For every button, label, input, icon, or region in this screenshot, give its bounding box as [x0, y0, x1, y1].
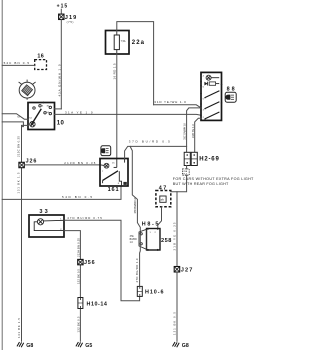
svg-text:10: 10 — [57, 120, 65, 126]
ground G5 — [76, 342, 92, 349]
svg-text:H10-6: H10-6 — [145, 289, 164, 295]
wire 258 down to H10-6 — [135, 235, 140, 287]
wire 54D BN 0.5 from 161 bottom — [2, 186, 121, 199]
wire left border feed — [2, 122, 23, 127]
wire feed into switch 10 left — [2, 114, 28, 120]
wire J19 into switch 10 — [55, 108, 62, 110]
wire 31B YE 1.0 from 88 to H2-69 — [191, 118, 201, 152]
rear fog light 258 — [147, 228, 172, 251]
wire H2-69 to relay 47 — [171, 175, 187, 192]
splice J27 — [174, 267, 192, 274]
svg-text:213A BN 0.35: 213A BN 0.35 — [76, 238, 80, 257]
svg-text:J19: J19 — [65, 15, 76, 21]
svg-text:16 RD 1.5: 16 RD 1.5 — [113, 63, 117, 79]
svg-text:258: 258 — [161, 238, 171, 244]
wire 54C BN 0.5 — [2, 61, 35, 65]
svg-text:213C BN 0.35: 213C BN 0.35 — [17, 136, 21, 157]
rear fog light switch 161 — [100, 159, 128, 193]
wire lamp 33 to ground G5 — [64, 231, 80, 342]
svg-text:43A GN/WH 1.0: 43A GN/WH 1.0 — [57, 64, 61, 96]
svg-text:161: 161 — [108, 187, 119, 193]
svg-text:37E: 37E — [130, 236, 135, 238]
left page border line — [1, 0, 3, 350]
svg-text:31B YE 0.35: 31B YE 0.35 — [173, 222, 177, 250]
wire H2-69 down — [186, 166, 188, 169]
icon front fog light beside 88 — [225, 92, 236, 102]
svg-text:H8-5: H8-5 — [142, 222, 159, 228]
svg-text:16: 16 — [37, 54, 43, 60]
svg-text:213D BN 0.35: 213D BN 0.35 — [64, 161, 95, 165]
relay 47 — [156, 185, 171, 206]
wire 31C GN/WH 1.0 from 88 to H2-69 — [183, 108, 201, 152]
svg-text:G8: G8 — [182, 343, 189, 349]
wire fuse 22a top to switch 88 feed — [117, 22, 154, 105]
svg-text:G8: G8 — [26, 343, 33, 349]
icon rear fog light above 161 — [101, 146, 111, 156]
svg-text:7,5A: 7,5A — [121, 40, 126, 43]
svg-text:22a: 22a — [132, 40, 145, 46]
wire 47 to 258 — [158, 207, 162, 229]
svg-text:22A: 22A — [183, 170, 187, 173]
light switch 10 — [28, 102, 64, 130]
svg-text:31C GN/WH 1.0: 31C GN/WH 1.0 — [183, 123, 187, 140]
wire J19 to switch 10 — [57, 20, 61, 109]
splice J19 — [59, 14, 77, 24]
svg-text:+15: +15 — [57, 4, 68, 10]
lamp unit 33 — [29, 209, 64, 237]
alternative connector 22A/H-3 — [183, 169, 190, 176]
svg-text:J26: J26 — [26, 158, 37, 164]
svg-text:J56: J56 — [84, 260, 95, 266]
svg-text:132 BK 0.5: 132 BK 0.5 — [76, 316, 80, 332]
wire 31A YE 1.0 switch 10 to switch 88 — [55, 110, 202, 115]
note text for cars without extra fog light — [173, 177, 254, 186]
svg-text:BU/RD: BU/RD — [130, 239, 137, 241]
svg-text:31B YE 1.0: 31B YE 1.0 — [191, 123, 195, 138]
wire switch 10 lamp to left vertical — [22, 125, 29, 341]
connector 16 — [35, 54, 47, 70]
svg-text:47D BU/RD 1.0: 47D BU/RD 1.0 — [135, 258, 139, 282]
wire 31D YE/WH 1.0 to switch 88 — [154, 100, 202, 108]
wire down to J27 — [173, 192, 177, 267]
svg-text:37C BU/RD 1.0: 37C BU/RD 1.0 — [133, 197, 137, 213]
wire label 37E BU/RD 1.0 — [130, 236, 137, 244]
svg-text:H10-14: H10-14 — [87, 302, 107, 308]
svg-text:47D BU/RD 0.75: 47D BU/RD 0.75 — [67, 216, 102, 220]
svg-text:(75): (75) — [67, 20, 74, 24]
svg-text:131 BK 0.5: 131 BK 0.5 — [173, 312, 177, 335]
ground G8 left — [17, 342, 33, 349]
connector housing on 258 — [139, 229, 147, 249]
svg-text:G5: G5 — [85, 343, 92, 349]
splice J26 — [19, 158, 37, 167]
icon light switch knob — [19, 80, 36, 100]
svg-text:H2-69: H2-69 — [199, 157, 219, 163]
svg-text:131 BK 1.5: 131 BK 1.5 — [17, 318, 21, 338]
splice J56 — [78, 259, 95, 266]
ground G8 right — [173, 342, 189, 349]
svg-text:J27: J27 — [181, 268, 193, 274]
svg-text:31D YE/WH 1.0: 31D YE/WH 1.0 — [154, 100, 186, 104]
wire fuse 22a bottom to switch 161 — [113, 54, 117, 159]
wire J27 to ground — [173, 272, 177, 341]
svg-text:132 BK 0.5: 132 BK 0.5 — [76, 269, 80, 284]
svg-text:BUT WITH REAR FOG LIGHT: BUT WITH REAR FOG LIGHT — [173, 182, 229, 186]
connector H10-6 — [137, 286, 163, 296]
fuse 22a — [106, 31, 145, 55]
wire branch 161 output down to 258 — [130, 146, 140, 233]
svg-text:131 BK 1.5: 131 BK 1.5 — [17, 172, 21, 193]
wire 37D BU/RD 0.5 from 161 — [125, 139, 187, 158]
svg-text:FOR CARS WITHOUT EXTRA FOG LIG: FOR CARS WITHOUT EXTRA FOG LIGHT — [173, 177, 254, 181]
connector H2-69 — [184, 152, 219, 165]
svg-text:54C BN 0.5: 54C BN 0.5 — [4, 61, 30, 65]
fog light switch 88 — [200, 72, 234, 120]
connector H10-14 — [78, 298, 107, 309]
wire 213D BN 0.35 J26 to 161 — [24, 161, 100, 165]
node +15 supply — [57, 4, 68, 14]
wire 47D BU/RD 0.75 lamp 33 to H10-6 — [64, 216, 140, 301]
